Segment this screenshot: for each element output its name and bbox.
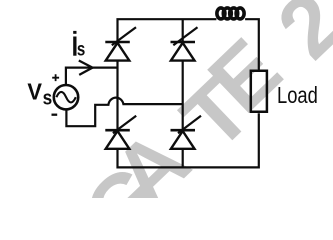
arrow on is wire: [79, 61, 93, 75]
wire: bottom lead of thyristor T4: [182, 149, 184, 168]
inductor: [217, 8, 244, 19]
wire: inductor to right top corner and down to load: [245, 19, 259, 69]
source circle: [54, 85, 78, 109]
thyristor T1 (top-left): [105, 27, 136, 60]
wire: top rail from T1 to inductor: [118, 19, 217, 43]
wire: source bottom lead, step and crossover hop to right bridge node B: [66, 98, 182, 127]
ac source Vs: [52, 74, 79, 115]
load resistor: [251, 71, 267, 112]
svg-text:V: V: [27, 78, 42, 104]
label Vs: [27, 78, 52, 109]
wire: source top lead and is wire to left bridge node: [66, 68, 119, 85]
wire: right bridge leg (node B region): [182, 60, 184, 129]
plus polarity mark: [52, 74, 59, 81]
minus polarity mark: [52, 114, 58, 116]
thyristor T3 (bottom-left): [105, 116, 136, 149]
wire: left bridge leg (node A region): [116, 60, 118, 129]
thyristor T2 (top-right): [171, 27, 198, 60]
svg-text:s: s: [77, 40, 85, 61]
wire: bottom rail from T3 to load bottom: [118, 113, 259, 167]
wire: top lead of thyristor T2: [182, 19, 184, 43]
svg-text:Load: Load: [277, 82, 318, 108]
thyristor T4 (bottom-right): [171, 116, 202, 149]
sine wave: [56, 92, 75, 103]
svg-text:s: s: [43, 88, 53, 110]
label is (source current): [73, 31, 85, 61]
